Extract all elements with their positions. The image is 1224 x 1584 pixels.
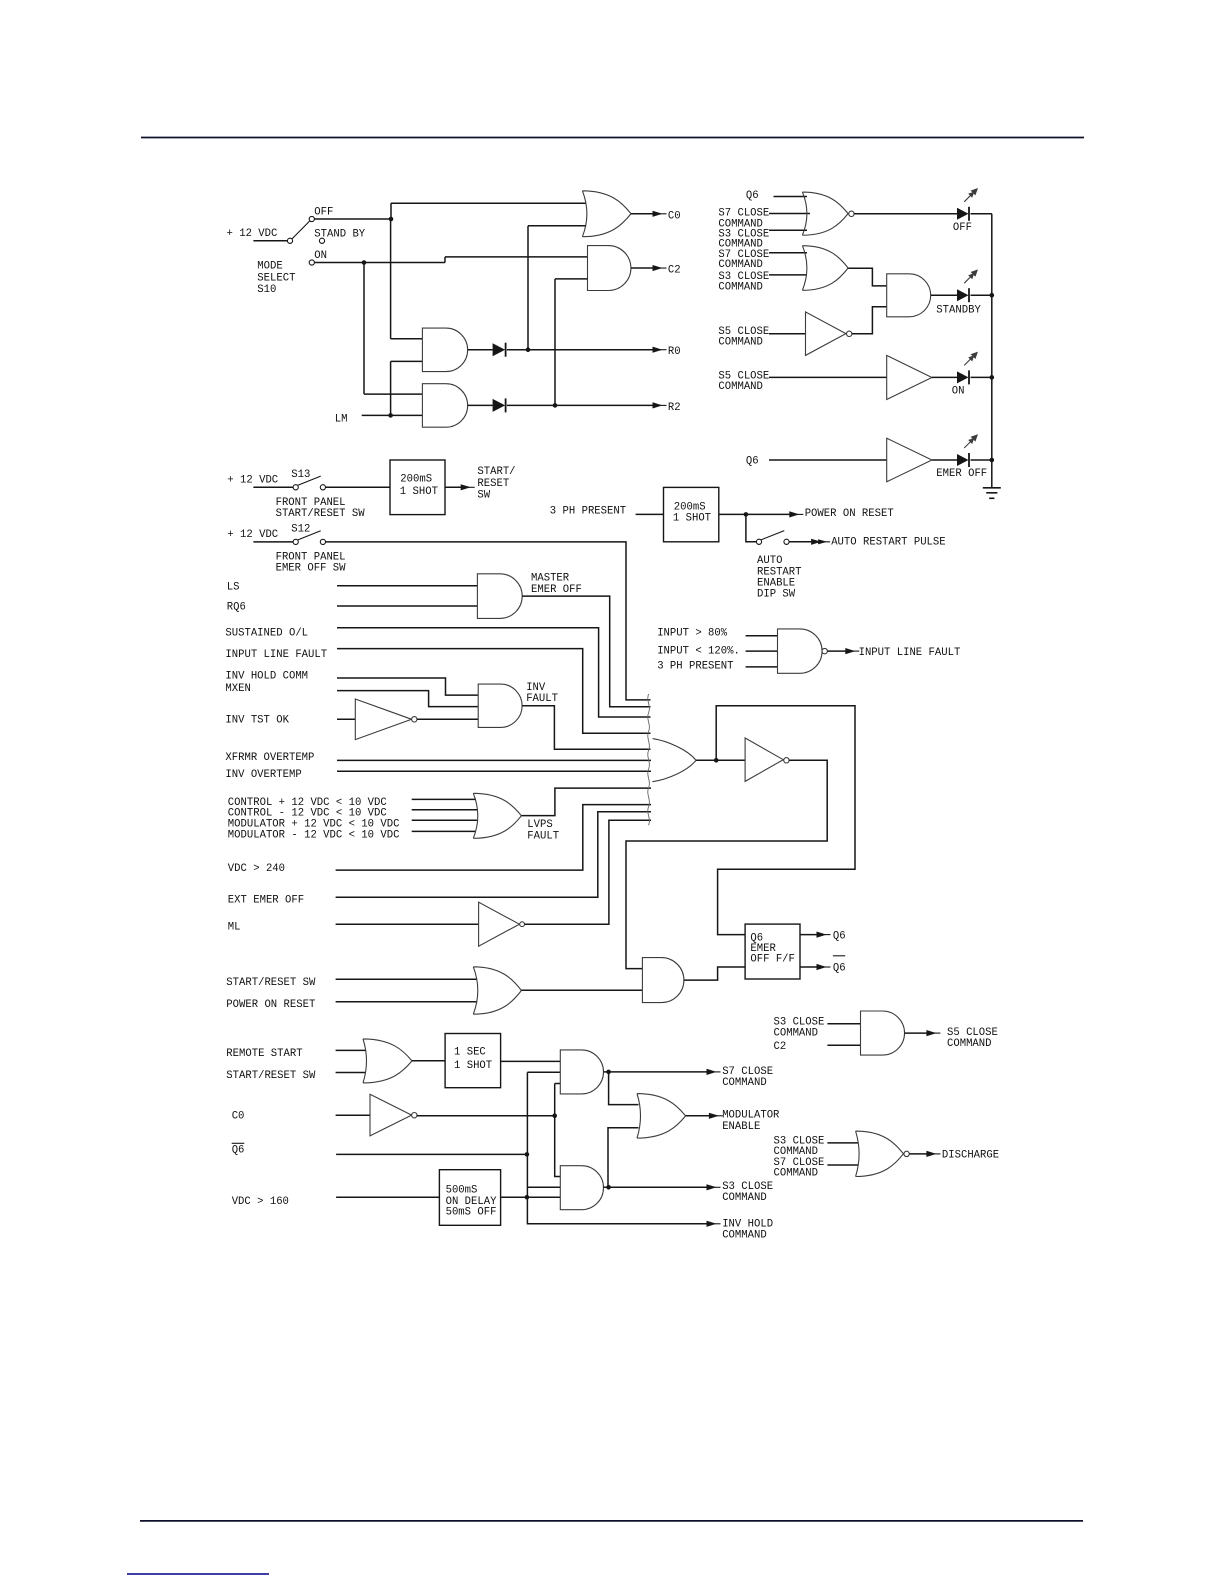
wire A10 out — [905, 1032, 928, 1034]
svg-text:COMMAND: COMMAND — [947, 1038, 992, 1050]
svg-text:S10: S10 — [257, 284, 276, 296]
wire U6 out to ON led — [932, 376, 957, 378]
svg-text:C2: C2 — [668, 265, 681, 277]
svg-text:EXT EMER OFF: EXT EMER OFF — [228, 895, 304, 907]
label S5 CLOSE COMMAND — [947, 1027, 998, 1050]
svg-text:+ 12 VDC: + 12 VDC — [227, 228, 278, 240]
wire U2 out to OFF led — [854, 213, 957, 215]
bubble U2 — [849, 211, 854, 216]
and-gate A5 (MASTER EMER OFF) — [477, 574, 522, 619]
label MODULATOR ENABLE — [722, 1110, 780, 1134]
diode CR2 — [493, 399, 506, 412]
wire O8 out — [696, 758, 745, 763]
wire N2 out — [909, 1153, 927, 1155]
bubble T7 — [412, 1113, 417, 1118]
svg-text:ENABLE: ENABLE — [757, 578, 795, 590]
label S3 CLOSE COMMAND — [722, 1181, 773, 1204]
svg-text:ENABLE: ENABLE — [722, 1121, 760, 1133]
wire Q6bar to junction — [336, 1153, 527, 1155]
wire switch to arrow — [789, 541, 811, 543]
arrow DISCHARGE — [926, 1151, 936, 1157]
svg-text:AUTO: AUTO — [757, 555, 782, 567]
label 200mS 1 SHOT (U8) — [400, 474, 438, 498]
and-gate A9 (S3 close) — [560, 1166, 603, 1210]
label MODE SELECT S10 — [257, 261, 295, 297]
svg-text:1 SHOT: 1 SHOT — [673, 512, 711, 524]
wire S5 CLOSE to inverter U5 — [769, 333, 806, 335]
svg-text:MXEN: MXEN — [225, 683, 250, 695]
wire T1 out to A6 — [417, 718, 478, 720]
wire to auto restart switch — [746, 514, 757, 541]
wire EXT EMER OFF to fan gate — [336, 812, 651, 898]
label S3 CLOSE COMMAND (U3) — [718, 271, 769, 293]
label S7 CLOSE COMMAND (N2) — [774, 1157, 825, 1180]
wire O7 in2 — [608, 1128, 639, 1188]
svg-text:C2: C2 — [774, 1041, 787, 1053]
wire INV OVERTEMP to fan gate — [337, 770, 651, 772]
label S3 CLOSE COMMAND (A10) — [774, 1017, 825, 1040]
svg-text:Q6: Q6 — [833, 963, 846, 975]
svg-text:3 PH PRESENT: 3 PH PRESENT — [657, 661, 733, 673]
label FRONT PANEL START/RESET SW — [276, 497, 366, 520]
svg-text:1 SHOT: 1 SHOT — [454, 1060, 492, 1072]
wire A1 out to diode CR1 — [468, 349, 493, 351]
svg-text:EMER OFF: EMER OFF — [936, 468, 987, 480]
wire S3 CLOSE to NOR U2 — [769, 229, 807, 231]
and-gate A6 (INV FAULT) — [478, 684, 522, 727]
svg-text:ML: ML — [228, 922, 241, 934]
wire T2 out to fan gate — [525, 820, 652, 924]
led DS1 OFF — [957, 208, 969, 220]
wire INV HOLD net — [527, 1197, 707, 1224]
and-gate A7 (FF set) — [642, 958, 684, 1003]
and-gate A2 (R2) — [422, 384, 467, 428]
arrow Q6 out — [817, 932, 827, 938]
svg-text:INPUT LINE FAULT: INPUT LINE FAULT — [859, 647, 961, 659]
svg-text:Q6: Q6 — [232, 1144, 245, 1156]
label INV HOLD COMMAND — [722, 1218, 773, 1241]
or-gate O4 (start/reset) — [473, 967, 521, 1014]
wire C0bar vertical net — [552, 1084, 560, 1177]
label AUTO RESTART ENABLE DIP SW — [757, 555, 802, 601]
wire S12 to fan gate — [326, 542, 651, 700]
and-gate A3 (C2) — [588, 246, 631, 291]
svg-text:C0: C0 — [232, 1111, 245, 1123]
wire C0 out — [631, 213, 654, 215]
bubble T2 — [520, 922, 525, 927]
svg-text:S13: S13 — [291, 469, 310, 481]
bubble U5 — [847, 331, 852, 336]
or-gate O8 (fault summary fan OR) — [648, 694, 650, 825]
svg-text:STANDBY: STANDBY — [936, 305, 981, 317]
label S7 CLOSE COMMAND (U3) — [718, 249, 769, 271]
svg-text:INV TST OK: INV TST OK — [225, 714, 289, 726]
svg-text:RESTART: RESTART — [757, 566, 802, 578]
svg-text:SW: SW — [477, 490, 490, 502]
svg-text:MASTER: MASTER — [531, 573, 570, 585]
svg-text:COMMAND: COMMAND — [718, 282, 763, 294]
one-shot box U10 1 SEC — [445, 1034, 501, 1088]
one-shot box U11 500mS ON DELAY — [439, 1170, 500, 1226]
label S3 CLOSE COMMAND (N2) — [774, 1135, 825, 1158]
wire START/RESET SW to O4 — [336, 978, 477, 980]
label CONTROL/MODULATOR LVPS inputs — [228, 797, 400, 841]
led DS3 ON — [957, 371, 969, 383]
svg-text:R0: R0 — [668, 346, 681, 358]
and-gate A1 (R0) — [422, 328, 467, 372]
svg-text:+ 12 VDC: + 12 VDC — [227, 474, 278, 486]
arrow S5 CLOSE COMMAND — [926, 1030, 936, 1036]
svg-text:COMMAND: COMMAND — [774, 1168, 819, 1180]
svg-text:START/RESET SW: START/RESET SW — [226, 977, 316, 989]
svg-text:RESET: RESET — [477, 478, 509, 490]
svg-text:START/RESET SW: START/RESET SW — [276, 508, 366, 520]
wire S5 CLOSE to buffer U6 — [769, 376, 887, 378]
arrow R2 — [653, 402, 663, 408]
label INPUT > 80% — [657, 628, 728, 640]
svg-text:S12: S12 — [291, 524, 310, 536]
wire LS to A5 — [337, 585, 477, 587]
svg-text:Q6: Q6 — [746, 190, 759, 202]
wire C2 out — [631, 267, 654, 269]
or-gate O7 (MODULATOR ENABLE) — [637, 1094, 686, 1139]
or-gate O6 (LVPS FAULT) — [473, 793, 521, 838]
inverter T7 (C0) — [370, 1094, 412, 1136]
svg-text:1 SHOT: 1 SHOT — [400, 486, 438, 498]
footnote rule — [127, 1573, 269, 1575]
arrow C0 — [653, 211, 663, 217]
wire U10 out to A8 — [501, 1060, 561, 1062]
svg-text:LS: LS — [227, 582, 240, 594]
svg-text:COMMAND: COMMAND — [718, 336, 763, 348]
arrow MODULATOR ENABLE — [709, 1113, 719, 1119]
svg-text:COMMAND: COMMAND — [722, 1077, 767, 1089]
bubble N1 — [822, 648, 827, 653]
wire REMOTE START to O5 — [336, 1049, 366, 1051]
wires NAND inputs — [746, 636, 778, 667]
and-gate U4 (STANDBY led driver) — [887, 274, 931, 317]
wire O8 out up-around to FF — [716, 706, 855, 935]
svg-text:COMMAND: COMMAND — [718, 381, 763, 393]
diode CR1 — [493, 343, 506, 356]
wire U5 out to U4 — [852, 307, 887, 334]
svg-text:FAULT: FAULT — [527, 830, 559, 842]
wire U4 out to STANDBY led — [931, 294, 957, 296]
wire SUSTAINED O/L to fan gate — [337, 628, 651, 717]
led DS2 STANDBY — [957, 289, 969, 301]
svg-text:VDC > 240: VDC > 240 — [228, 863, 285, 875]
svg-text:500mS: 500mS — [446, 1184, 478, 1196]
svg-text:INV OVERTEMP: INV OVERTEMP — [225, 769, 301, 781]
bubble T3 — [784, 758, 789, 763]
wire R2 net — [507, 279, 654, 408]
nand-gate N1 (INPUT LINE FAULT) — [778, 629, 823, 673]
arrow C2 — [653, 265, 663, 271]
svg-text:FAULT: FAULT — [526, 693, 558, 705]
wire A2 out to diode CR2 — [468, 404, 493, 406]
svg-text:ON: ON — [952, 386, 965, 398]
wire Q6 to NOR U2 — [774, 196, 808, 198]
svg-text:VDC > 160: VDC > 160 — [232, 1196, 289, 1208]
svg-text:STAND BY: STAND BY — [314, 228, 366, 240]
svg-text:LVPS: LVPS — [527, 819, 552, 831]
wire OFF net — [314, 203, 585, 339]
wire +12VDC to S13 — [253, 486, 293, 488]
buffer U7 (EMER OFF led driver) — [887, 438, 932, 482]
ground — [983, 487, 1001, 489]
inverter U5 — [806, 312, 846, 356]
svg-text:EMER OFF: EMER OFF — [531, 584, 582, 596]
wire FF Q6bar out — [800, 966, 818, 968]
switch S10 MODE SELECT — [253, 216, 324, 265]
wire O4 out to A7 — [521, 989, 642, 991]
arrow INPUT LINE FAULT — [845, 648, 855, 654]
or-gate U3 (standby) — [802, 246, 848, 291]
inverter T1 (INV TST OK) — [355, 699, 411, 740]
svg-text:POWER ON RESET: POWER ON RESET — [226, 999, 315, 1011]
svg-text:COMMAND: COMMAND — [774, 1027, 819, 1039]
wire 3PH to one-shot — [636, 513, 664, 515]
svg-text:Q6: Q6 — [833, 930, 846, 942]
svg-text:ON: ON — [314, 250, 327, 262]
wire U3 out to U4 — [848, 268, 887, 286]
svg-text:MODULATOR - 12 VDC < 10 VDC: MODULATOR - 12 VDC < 10 VDC — [228, 829, 400, 841]
svg-text:COMMAND: COMMAND — [722, 1230, 767, 1242]
nor-gate N2 (DISCHARGE) — [856, 1131, 904, 1176]
wire RQ6 to A5 — [337, 605, 477, 607]
bottom rule — [140, 1520, 1083, 1522]
label INV FAULT — [526, 682, 558, 705]
label INPUT < 120%. — [657, 646, 740, 658]
label FRONT PANEL EMER OFF SW — [276, 551, 347, 574]
arrow AUTO RESTART PULSE — [811, 539, 821, 545]
svg-text:INPUT < 120%.: INPUT < 120%. — [657, 646, 740, 658]
svg-text:C0: C0 — [668, 210, 681, 222]
nor-gate U2 (OFF led driver) — [802, 192, 848, 235]
svg-text:COMMAND: COMMAND — [718, 259, 763, 271]
wire INV HOLD COMM to A6 — [337, 678, 478, 695]
inverter T3 (fault) — [745, 738, 783, 781]
or-gate O1 (C0) — [582, 191, 631, 237]
label Q6 EMER OFF F/F — [750, 932, 795, 965]
svg-text:EMER OFF SW: EMER OFF SW — [276, 563, 347, 575]
svg-text:3 PH PRESENT: 3 PH PRESENT — [550, 505, 626, 517]
wire INPUT LINE FAULT to fan gate — [337, 649, 651, 734]
one-shot box U8 200mS — [390, 460, 445, 515]
arrow R0 — [653, 347, 663, 353]
arrow S7 CLOSE COMMAND — [707, 1069, 717, 1075]
svg-text:SUSTAINED O/L: SUSTAINED O/L — [225, 627, 308, 639]
arrow Q6bar out — [817, 964, 827, 970]
arrow INV HOLD COMMAND — [707, 1221, 717, 1227]
wire Q6bar vertical net — [525, 1072, 561, 1197]
flip-flop FF1 Q6 EMER OFF F/F — [745, 924, 800, 979]
wire XFRMR OVERTEMP to fan gate — [337, 759, 651, 761]
wires N2 inputs — [827, 1143, 858, 1165]
label LVPS FAULT — [527, 819, 559, 843]
wire O7 out — [686, 1115, 710, 1117]
wires LVPS inputs to O6 — [412, 799, 477, 831]
wire POWER ON RESET to O4 — [336, 1001, 477, 1003]
and-gate A8 (S7 close) — [560, 1050, 603, 1094]
switch S13 FRONT PANEL START/RESET SW — [293, 485, 298, 490]
svg-text:INV HOLD: INV HOLD — [722, 1218, 773, 1230]
wire U8 out — [445, 486, 462, 488]
wire ON net — [314, 257, 587, 394]
label MASTER EMER OFF — [531, 573, 582, 597]
label 3 PH PRESENT (nand) — [657, 661, 733, 673]
overline Q6bar — [232, 1142, 245, 1144]
svg-text:200mS: 200mS — [400, 474, 432, 486]
bubble T1 — [412, 717, 417, 722]
svg-text:INPUT LINE FAULT: INPUT LINE FAULT — [225, 649, 327, 661]
svg-text:OFF: OFF — [953, 222, 972, 234]
wire LM net — [362, 361, 423, 417]
svg-text:MODE: MODE — [257, 261, 282, 273]
svg-text:RQ6: RQ6 — [227, 602, 246, 614]
arrow POWER ON RESET — [789, 511, 799, 517]
svg-text:+ 12 VDC: + 12 VDC — [227, 529, 278, 541]
wire A9 out — [604, 1185, 708, 1190]
bubble N2 — [904, 1151, 909, 1156]
svg-text:OFF F/F: OFF F/F — [750, 953, 795, 965]
label S5 CLOSE COMMAND (U5 inv) — [718, 326, 769, 348]
wire T3 out down-around to A7 — [626, 760, 827, 968]
wire A7 out to FF — [684, 967, 745, 980]
label 200mS 1 SHOT (U9) — [673, 501, 711, 524]
or-gate O5 (remote start) — [363, 1039, 412, 1083]
inverter T2 (ML) — [479, 902, 520, 946]
switch S12 FRONT PANEL EMER OFF SW — [293, 539, 298, 544]
wire MXEN to A6 — [337, 691, 478, 707]
wire O6 out to fan gate — [521, 788, 651, 816]
svg-text:COMMAND: COMMAND — [722, 1192, 767, 1204]
svg-text:INV HOLD COMM: INV HOLD COMM — [225, 670, 308, 682]
wire START/RESET SW to O5 — [336, 1072, 366, 1074]
label S7 CLOSE COMMAND — [722, 1066, 773, 1089]
wire A6 out to fan gate — [522, 706, 650, 750]
label S3 CLOSE COMMAND (U2) — [718, 228, 769, 250]
wire T7 out — [417, 1115, 555, 1117]
wires A10 inputs — [827, 1024, 860, 1046]
and-gate A10 (S5 close) — [861, 1011, 905, 1055]
wire R0 net — [507, 226, 654, 352]
wire Q6 to buffer U7 — [769, 459, 887, 461]
svg-text:Q6: Q6 — [746, 456, 759, 468]
buffer U6 (ON led driver) — [887, 355, 932, 399]
wire FF Q6 out — [800, 934, 818, 936]
wire S7 CLOSE to OR U3 — [769, 252, 807, 254]
label 1 SEC 1 SHOT — [454, 1047, 492, 1072]
wire led cathode bus — [971, 214, 995, 488]
svg-text:REMOTE START: REMOTE START — [226, 1048, 302, 1060]
wire N1 out — [827, 650, 846, 652]
svg-text:XFRMR OVERTEMP: XFRMR OVERTEMP — [225, 752, 314, 764]
svg-text:OFF: OFF — [314, 207, 333, 219]
svg-text:START/RESET SW: START/RESET SW — [226, 1070, 316, 1082]
label S7 CLOSE COMMAND (U2) — [718, 208, 769, 231]
wire S3 CLOSE to OR U3 — [769, 274, 807, 276]
wire VDC>160 to U11 — [336, 1196, 439, 1198]
svg-text:1 SEC: 1 SEC — [454, 1047, 486, 1059]
wire U9 out POWER ON RESET — [719, 512, 791, 517]
led DS4 EMER OFF — [957, 454, 969, 466]
wire S13 to one-shot — [326, 486, 391, 488]
wire O5 out to 1 SEC one-shot — [412, 1060, 445, 1062]
label START/ RESET SW — [477, 466, 515, 502]
wire U7 out to EMER OFF led — [932, 459, 957, 461]
svg-text:START/: START/ — [477, 466, 515, 478]
wire VDC>240 to fan gate — [336, 805, 651, 871]
label 500mS ON DELAY 50mS OFF — [446, 1184, 498, 1218]
wire C0 to T7 — [336, 1114, 370, 1116]
arrow START/RESET SW — [461, 484, 471, 490]
svg-text:LM: LM — [335, 413, 348, 425]
svg-text:DISCHARGE: DISCHARGE — [942, 1150, 999, 1162]
label S5 CLOSE COMMAND (U6) — [718, 371, 769, 393]
wire S7 CLOSE to NOR U2 — [769, 213, 810, 215]
svg-text:DIP SW: DIP SW — [757, 589, 796, 601]
label Q6bar (FF output) — [833, 956, 846, 975]
svg-text:SELECT: SELECT — [257, 272, 295, 284]
wire A8 out — [604, 1070, 708, 1075]
wire A8 out to O7 — [609, 1072, 639, 1105]
svg-text:INPUT > 80%: INPUT > 80% — [657, 628, 728, 640]
svg-text:FRONT PANEL: FRONT PANEL — [276, 551, 346, 563]
svg-text:50mS OFF: 50mS OFF — [446, 1207, 497, 1219]
one-shot box U9 200mS — [664, 487, 719, 541]
arrow S3 CLOSE COMMAND — [707, 1184, 717, 1190]
wire +12VDC to S12 — [253, 541, 293, 543]
svg-text:AUTO RESTART PULSE: AUTO RESTART PULSE — [831, 537, 945, 549]
svg-text:R2: R2 — [668, 402, 681, 414]
svg-text:MODULATOR: MODULATOR — [722, 1110, 780, 1122]
wire U11 out to A9 — [501, 1195, 561, 1200]
wire A5 out to fan gate — [522, 596, 650, 707]
switch AUTO RESTART ENABLE DIP SW — [756, 539, 761, 544]
svg-text:POWER ON RESET: POWER ON RESET — [805, 508, 894, 520]
wire INV TST OK to T1 — [337, 718, 355, 720]
top rule — [141, 137, 1084, 139]
wire ML to T2 — [336, 923, 479, 925]
